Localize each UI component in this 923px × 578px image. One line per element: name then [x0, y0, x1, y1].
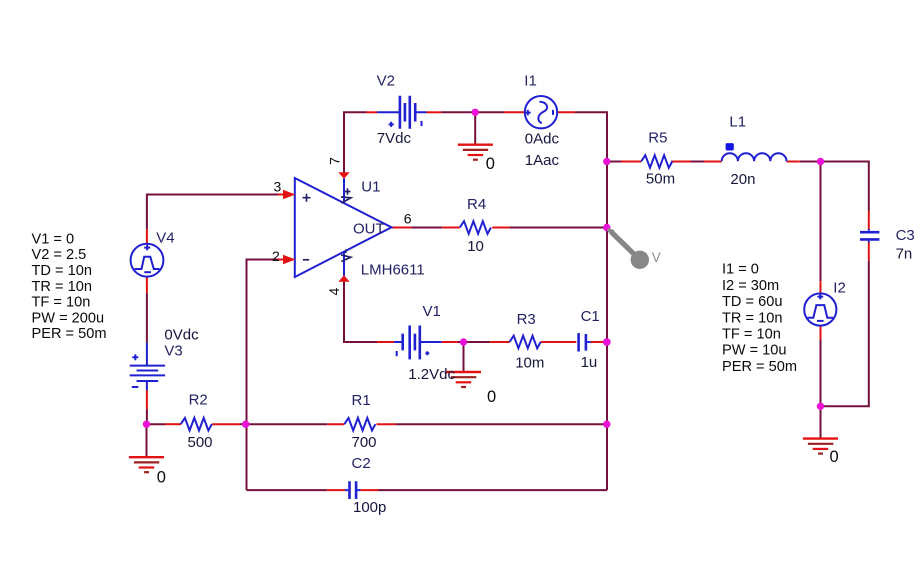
svg-text:V4: V4: [156, 229, 174, 246]
label R2: [189, 392, 208, 409]
value 1.2Vdc: [408, 366, 455, 383]
wire: op-amp output to R4: [411, 227, 442, 229]
V- marker on pin 4: [341, 250, 351, 262]
pin arrow: pin 2: [283, 255, 296, 264]
svg-text:50m: 50m: [646, 171, 675, 188]
voltage probe V: [608, 228, 661, 269]
wire: I2 bottom to ground junction: [820, 340, 822, 438]
pin stub red: I1 right: [558, 111, 576, 113]
svg-text:OUT: OUT: [353, 220, 385, 237]
pin stub red: R4 right: [492, 227, 509, 229]
svg-text:C2: C2: [352, 455, 371, 472]
pin stub red: L1 right: [787, 161, 800, 163]
wire: junction to lower-left ground: [146, 424, 148, 456]
label U1: [361, 178, 380, 195]
wire: I1 right to top-right corner: [575, 111, 607, 113]
label R3: [517, 311, 536, 328]
pin arrow: pin 7: [338, 172, 349, 179]
value 700: [352, 434, 377, 451]
pin stub red: R1 right: [377, 423, 396, 425]
pin stub red: L1 left: [704, 161, 722, 163]
wire: pin3 input from V4 corner: [147, 195, 278, 230]
junction: I2 bottom node: [817, 403, 824, 410]
op-amp pin 7 lead: [343, 178, 345, 203]
wire: R2 right join to node: [240, 423, 246, 425]
svg-text:I2 = 30m: I2 = 30m: [722, 278, 779, 294]
svg-text:PW = 200u: PW = 200u: [32, 310, 105, 326]
wire: L1 right to node and C3 branch corner: [800, 161, 869, 163]
pin stub red: C2 left: [327, 489, 345, 491]
pin stub red: V4 bottom: [146, 276, 148, 293]
ground node 0 at V2: [486, 155, 495, 173]
pin stub red: I1 left: [504, 111, 526, 113]
ground node 0 at V1: [487, 388, 496, 406]
pin stub red: V1 left: [377, 341, 394, 343]
label R1: [352, 392, 371, 409]
label V1: [423, 303, 441, 320]
pin stub red: V4 top: [146, 229, 148, 244]
battery V3: [130, 343, 165, 391]
svg-text:V3: V3: [164, 343, 182, 360]
svg-text:I1 = 0: I1 = 0: [722, 262, 759, 278]
inductor L1: [722, 143, 787, 161]
svg-text:PW = 10u: PW = 10u: [722, 343, 787, 359]
label L1: [729, 113, 746, 130]
wire: R5 to L1: [691, 161, 704, 163]
pin stub red: I2 top: [820, 281, 822, 293]
V4 parameter list: [32, 231, 107, 342]
value 0Vdc: [164, 327, 199, 344]
pin stub red: C3 bottom: [868, 243, 870, 261]
ground node 0 lower-right: [830, 448, 839, 466]
pin arrow: pin 4: [338, 275, 349, 282]
svg-text:1u: 1u: [581, 354, 598, 371]
pin number 7: [327, 157, 343, 165]
svg-text:R5: R5: [648, 130, 667, 147]
wire: R2 left join: [147, 423, 166, 425]
pin stub red: C1 right to node: [591, 341, 606, 343]
svg-text:PER = 50m: PER = 50m: [32, 326, 107, 342]
pin number 3: [274, 178, 282, 194]
svg-text:3: 3: [274, 178, 282, 194]
svg-text:1.2Vdc: 1.2Vdc: [408, 366, 455, 383]
svg-text:10m: 10m: [515, 355, 544, 372]
junction: R1 right node: [603, 421, 610, 428]
svg-text:V1 = 0: V1 = 0: [32, 231, 75, 247]
resistor R3: [510, 336, 541, 349]
value 20n: [730, 171, 755, 188]
label V2: [377, 72, 395, 89]
pin stub red: op-amp output: [392, 227, 412, 229]
svg-text:R4: R4: [467, 196, 486, 213]
battery V2: [377, 96, 427, 129]
wire: main vertical bus x=607: [606, 111, 608, 490]
label R4: [467, 196, 486, 213]
pin number 6: [404, 211, 412, 227]
value 7Vdc: [377, 130, 412, 147]
svg-text:0: 0: [830, 448, 839, 466]
label R5: [648, 130, 667, 147]
svg-text:TR = 10n: TR = 10n: [722, 310, 782, 326]
wire: node to R1 left: [246, 423, 328, 425]
wire: C3 branch vertical upper: [868, 161, 870, 212]
pin number 4: [326, 287, 342, 295]
svg-text:R3: R3: [517, 311, 536, 328]
label V4: [156, 229, 174, 246]
svg-text:10: 10: [467, 238, 484, 255]
pin number 2: [272, 248, 280, 264]
capacitor C1: [579, 333, 591, 351]
svg-text:I1: I1: [524, 72, 537, 89]
svg-text:7: 7: [327, 157, 343, 165]
pin stub red: C2 right: [360, 489, 378, 491]
wire: C3 branch vertical lower to bottom corner: [821, 260, 869, 406]
label C1: [581, 308, 600, 325]
value 0Adc: [525, 130, 560, 147]
pin stub red: R5 right: [671, 161, 691, 163]
svg-text:LMH6611: LMH6611: [361, 261, 425, 278]
label C3: [896, 227, 915, 244]
pin stub red: V1 right: [442, 341, 458, 343]
value 50m: [646, 171, 675, 188]
ground 0 lower-left: [129, 457, 164, 472]
wire: R4 right to probe node: [510, 227, 607, 229]
label OUT: [353, 220, 385, 237]
op-amp U1: [295, 178, 392, 277]
svg-text:R2: R2: [189, 392, 208, 409]
junction: C1 right node: [603, 338, 611, 346]
value 10m: [515, 355, 544, 372]
svg-text:7n: 7n: [896, 245, 913, 262]
svg-text:PER = 50m: PER = 50m: [722, 359, 797, 375]
svg-text:2: 2: [272, 248, 280, 264]
wire: I2 branch vertical upper: [820, 162, 822, 282]
pin arrow: pin 3: [283, 190, 296, 199]
pin stub red: R1 left: [327, 423, 344, 425]
pulse source V4: [131, 244, 164, 277]
wire: pin4 down and across to V1: [344, 281, 377, 342]
label I1: [524, 72, 537, 89]
value 100p: [353, 499, 386, 516]
label V3: [164, 343, 182, 360]
svg-text:TF = 10n: TF = 10n: [32, 295, 91, 311]
svg-text:TD = 10n: TD = 10n: [32, 263, 92, 279]
svg-text:0Vdc: 0Vdc: [164, 327, 199, 344]
junction: V2 output node: [472, 109, 479, 116]
capacitor C2: [345, 481, 360, 499]
svg-text:0: 0: [487, 388, 496, 406]
svg-text:0: 0: [157, 468, 166, 486]
wire: V1 ground stem: [463, 342, 465, 371]
wire: V4 to V3 vertical: [146, 293, 148, 342]
pin stub red: R4 left: [442, 227, 460, 229]
pin stub red: R5 left: [621, 161, 641, 163]
svg-text:500: 500: [188, 434, 213, 451]
resistor R1: [344, 418, 375, 431]
pulse current source I2: [804, 293, 836, 325]
junction: R5 left node: [603, 158, 610, 165]
capacitor C3: [860, 229, 879, 243]
pin stub red: R2 left: [165, 423, 181, 425]
value 1u: [581, 354, 598, 371]
pin stub red: I2 bottom: [820, 326, 822, 340]
op-amp pin 4 lead: [343, 251, 345, 276]
ground 0 at V1: [446, 372, 481, 387]
pin stub red: R2 right: [212, 423, 240, 425]
wire: pin2 input and feedback vertical: [247, 260, 279, 491]
junction: probe node: [603, 224, 610, 231]
I2 parameter list: [722, 262, 797, 375]
svg-text:I2: I2: [833, 279, 846, 296]
pin stub red: R3 right to C1 left: [541, 341, 577, 343]
wire: C2 row right to vertical bus: [378, 489, 607, 491]
ground node 0 lower-left: [157, 468, 166, 486]
pin stub red: V2 right: [427, 111, 442, 113]
ground 0 at V2: [458, 145, 493, 160]
resistor R4: [460, 221, 491, 234]
svg-text:V1: V1: [423, 303, 441, 320]
wire: C2 row left: [247, 489, 328, 491]
svg-text:TD = 60u: TD = 60u: [722, 294, 782, 310]
wire: pin7 corner up and across to V2 left: [344, 112, 366, 172]
pin stub red: pin 2: [278, 259, 284, 261]
label I2: [833, 279, 846, 296]
wire: R1 right to vertical bus: [396, 423, 608, 425]
ground 0 lower-right: [803, 439, 838, 454]
svg-text:U1: U1: [361, 178, 380, 195]
svg-text:700: 700: [352, 434, 377, 451]
junction: V1 ground node: [460, 338, 467, 345]
resistor R2: [181, 418, 212, 431]
svg-text:6: 6: [404, 211, 412, 227]
pin stub red: C3 top: [868, 211, 870, 229]
svg-text:V2: V2: [377, 72, 395, 89]
svg-text:V: V: [652, 250, 661, 265]
value 1Aac: [525, 152, 560, 169]
junction: V3 bottom node: [143, 421, 150, 428]
wire: V1 right to ground junction: [458, 341, 490, 343]
pin stub red: V3 bottom: [146, 390, 148, 409]
value 500: [188, 434, 213, 451]
junction: L1 right node: [817, 158, 824, 165]
pin stub red: V2 left: [366, 111, 377, 113]
wire: V2 right to ground junction and on to I1: [441, 111, 504, 113]
svg-text:1Aac: 1Aac: [525, 152, 560, 169]
svg-text:7Vdc: 7Vdc: [377, 130, 412, 147]
V+ marker on pin 7: [341, 188, 351, 203]
pin stub red: pin 3: [278, 194, 284, 196]
svg-text:R1: R1: [352, 392, 371, 409]
svg-text:0Adc: 0Adc: [525, 130, 560, 147]
svg-text:0: 0: [486, 155, 495, 173]
value 7n: [896, 245, 913, 262]
junction: R2-R1 node: [242, 421, 249, 428]
label LMH6611: [361, 261, 425, 278]
battery V1: [394, 326, 442, 360]
svg-text:20n: 20n: [730, 171, 755, 188]
svg-text:C3: C3: [896, 227, 915, 244]
wire: V3 bottom to junction: [146, 409, 148, 424]
value 10: [467, 238, 484, 255]
wire: R5 left stub join: [607, 161, 621, 163]
pin stub red: R3 left: [490, 341, 509, 343]
svg-text:100p: 100p: [353, 499, 386, 516]
svg-text:4: 4: [326, 287, 342, 295]
svg-text:TF = 10n: TF = 10n: [722, 327, 781, 343]
resistor R5: [641, 155, 672, 168]
svg-text:V2 = 2.5: V2 = 2.5: [32, 247, 87, 263]
svg-text:TR = 10n: TR = 10n: [32, 279, 92, 295]
svg-text:C1: C1: [581, 308, 600, 325]
svg-text:L1: L1: [729, 113, 746, 130]
label C2: [352, 455, 371, 472]
AC current source I1: [525, 96, 557, 128]
wire: V2 ground stem: [474, 112, 476, 144]
